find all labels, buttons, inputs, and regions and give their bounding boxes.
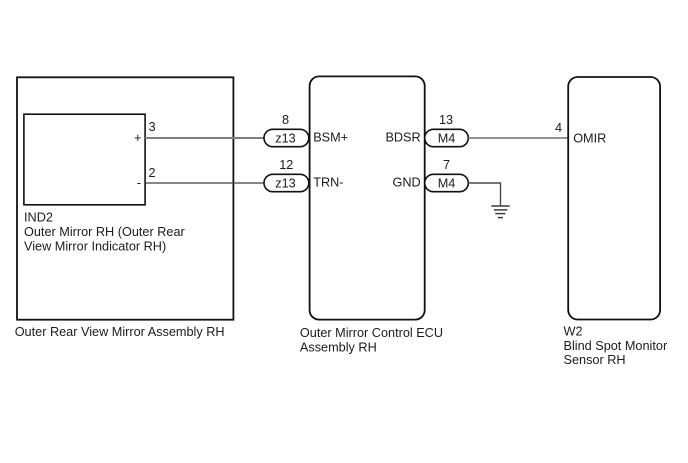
- svg-text:4: 4: [555, 121, 562, 135]
- svg-text:Assembly RH: Assembly RH: [300, 341, 377, 355]
- svg-text:IND2: IND2: [24, 210, 53, 224]
- svg-text:-: -: [137, 176, 141, 190]
- wire: M4 pin 13 (BDSR) to W2 pin 4 (OMIR): [468, 137, 568, 139]
- svg-text:View Mirror Indicator RH): View Mirror Indicator RH): [24, 239, 166, 253]
- svg-text:Outer Mirror RH (Outer Rear: Outer Mirror RH (Outer Rear: [24, 225, 186, 239]
- component box: Outer Mirror Control ECU Assembly RH: [300, 76, 443, 354]
- svg-text:Blind Spot Monitor: Blind Spot Monitor: [564, 339, 668, 353]
- pin OMIR: [573, 131, 606, 145]
- connector M4 pin 7: [425, 158, 469, 192]
- wire: IND2 pin 3 to connector z13 pin 8 (BSM+): [145, 137, 264, 139]
- svg-text:8: 8: [282, 113, 289, 127]
- wire: IND2 pin 2 to connector z13 pin 12 (TRN-): [145, 182, 264, 184]
- svg-text:Outer Rear View Mirror Assembl: Outer Rear View Mirror Assembly RH: [15, 325, 225, 339]
- pin number 3: [149, 120, 156, 134]
- svg-text:W2: W2: [564, 325, 583, 339]
- svg-text:M4: M4: [438, 131, 456, 145]
- svg-text:BDSR: BDSR: [385, 131, 420, 145]
- svg-text:7: 7: [443, 158, 450, 172]
- wire: M4 pin 7 (GND) to ground: [468, 183, 500, 206]
- svg-text:M4: M4: [438, 176, 456, 190]
- svg-text:GND: GND: [392, 176, 420, 190]
- ground: [491, 206, 509, 218]
- svg-text:Sensor RH: Sensor RH: [564, 353, 626, 367]
- connector z13 pin 12: [264, 158, 309, 192]
- svg-text:z13: z13: [275, 131, 295, 145]
- pin number 4: [555, 121, 562, 135]
- svg-text:+: +: [134, 131, 141, 145]
- svg-text:3: 3: [149, 120, 156, 134]
- pin GND: [392, 176, 420, 190]
- pin BDSR: [385, 131, 420, 145]
- connector M4 pin 13: [425, 113, 469, 147]
- svg-text:12: 12: [279, 158, 293, 172]
- component IND2: Outer Mirror RH (inner box): [24, 114, 186, 253]
- svg-text:2: 2: [149, 166, 156, 180]
- svg-text:TRN-: TRN-: [313, 176, 343, 190]
- svg-text:Outer Mirror Control ECU: Outer Mirror Control ECU: [300, 326, 443, 340]
- pin - (IND2 negative terminal): [137, 176, 141, 190]
- svg-text:BSM+: BSM+: [313, 131, 348, 145]
- pin TRN-: [313, 176, 343, 190]
- pin + (IND2 positive terminal): [134, 131, 141, 145]
- pin BSM+: [313, 131, 348, 145]
- svg-text:13: 13: [439, 113, 453, 127]
- svg-text:z13: z13: [275, 176, 295, 190]
- component box: Outer Rear View Mirror Assembly RH: [15, 77, 234, 339]
- svg-text:OMIR: OMIR: [573, 131, 606, 145]
- connector z13 pin 8: [264, 113, 309, 147]
- pin number 2: [149, 166, 156, 180]
- component box: W2 Blind Spot Monitor Sensor RH: [564, 77, 668, 367]
